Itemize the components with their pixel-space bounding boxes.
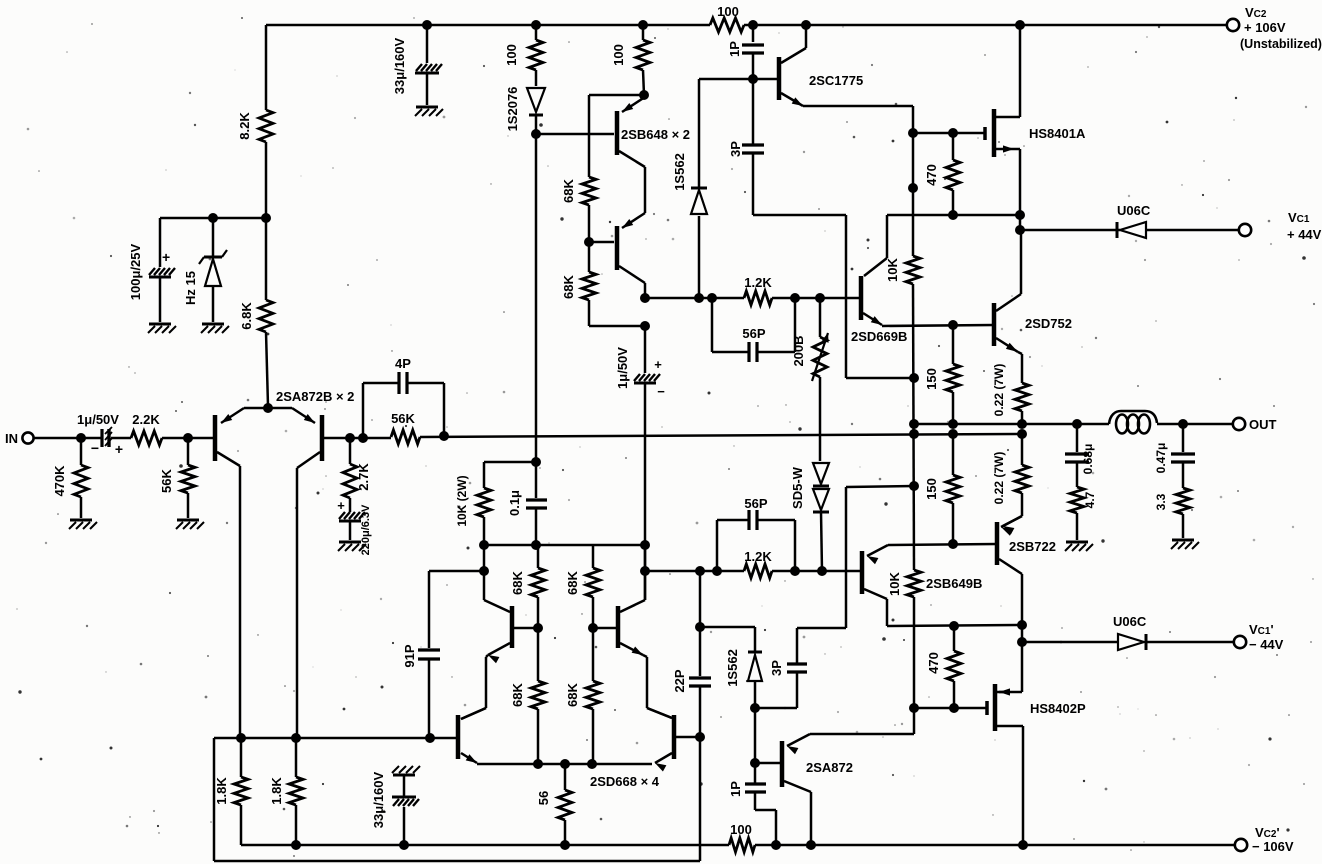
label 100u/25V bbox=[128, 243, 143, 300]
wire Q5 emitter chain bbox=[461, 655, 488, 719]
svg-text:470: 470 bbox=[924, 164, 939, 186]
diode SD5-W pair bbox=[813, 463, 829, 571]
svg-text:+: + bbox=[654, 357, 662, 372]
wire 22P line bottom bbox=[699, 737, 702, 861]
ground 470K bbox=[69, 520, 97, 529]
svg-text:1.2K: 1.2K bbox=[744, 275, 772, 290]
junction Q3 emitter bbox=[639, 90, 649, 100]
svg-text:150: 150 bbox=[924, 478, 939, 500]
label 0.47u bbox=[1154, 443, 1168, 474]
svg-text:8.2K: 8.2K bbox=[237, 112, 252, 140]
svg-text:2SC1775: 2SC1775 bbox=[809, 73, 863, 88]
wire 1S562 to 1P bbox=[754, 708, 757, 783]
transistor Q8 2SD668 bbox=[647, 708, 674, 772]
capacitor 56P upper bbox=[712, 298, 795, 362]
svg-text:10K: 10K bbox=[885, 257, 900, 281]
junction 22P y627 bbox=[695, 622, 705, 632]
wire to U06C lower bbox=[1022, 641, 1118, 644]
wire VAS row bbox=[645, 297, 860, 300]
resistor 10K upper bbox=[906, 256, 920, 284]
label 2SA872B x 2 bbox=[276, 389, 354, 404]
label 22P bbox=[672, 669, 687, 692]
wire main rail bbox=[420, 434, 1022, 437]
junction bottom x776 bbox=[771, 840, 781, 850]
svg-text:3.3: 3.3 bbox=[1154, 493, 1168, 510]
svg-text:1P: 1P bbox=[727, 41, 742, 57]
svg-text:100: 100 bbox=[504, 44, 519, 66]
svg-text:100: 100 bbox=[730, 822, 752, 837]
label plus 1u mid bbox=[654, 357, 662, 372]
wire Q4 collector bbox=[644, 283, 647, 298]
resistor 68K b bbox=[582, 242, 596, 326]
svg-text:68K: 68K bbox=[561, 274, 576, 298]
junction y215 x1020 bbox=[1015, 210, 1025, 220]
wire Q3 coll to Q4 bbox=[644, 167, 647, 213]
wire HS8402P source bbox=[1021, 642, 1024, 692]
svg-text:2SD668 × 4: 2SD668 × 4 bbox=[590, 774, 660, 789]
potentiometer 200B bbox=[812, 298, 829, 461]
svg-text:100μ/25V: 100μ/25V bbox=[128, 243, 143, 300]
svg-text:56P: 56P bbox=[744, 496, 767, 511]
resistor 470K bbox=[74, 438, 88, 518]
resistor 100 bottom bbox=[729, 838, 755, 852]
resistor 10K lower bbox=[907, 570, 921, 597]
ground 220u bbox=[338, 542, 366, 551]
wire 2SD669B collector bbox=[864, 215, 887, 276]
transistor Q1 2SA872B left bbox=[215, 415, 240, 466]
resistor 1.2K lower bbox=[744, 564, 772, 578]
junction y545 x953 bbox=[948, 539, 958, 549]
svg-text:200B: 200B bbox=[791, 335, 806, 366]
svg-text:1S562: 1S562 bbox=[725, 649, 740, 687]
junction 1P top bbox=[748, 20, 758, 30]
junction 1S562 upper bbox=[694, 293, 704, 303]
resistor 100 (top rail) bbox=[710, 18, 744, 32]
label 10K lower bbox=[887, 571, 902, 595]
svg-text:68K: 68K bbox=[561, 178, 576, 202]
wire y571 left bbox=[429, 570, 484, 573]
svg-text:56K: 56K bbox=[391, 411, 415, 426]
junction 470 lower bottom bbox=[949, 703, 959, 713]
svg-text:−: − bbox=[657, 384, 665, 399]
wire 2SC1775 emitter bbox=[803, 106, 913, 133]
svg-text:0.22 (7W): 0.22 (7W) bbox=[992, 364, 1006, 417]
wire to U06C upper bbox=[1020, 229, 1120, 232]
wire 10K chain upper bbox=[912, 133, 915, 256]
label 0.1u bbox=[507, 490, 522, 516]
label 2SD668 x 4 bbox=[590, 774, 660, 789]
capacitor 33u/160V bottom bbox=[392, 775, 419, 845]
label 68K f bbox=[565, 682, 580, 706]
svg-text:+ 44V: + 44V bbox=[1287, 227, 1322, 242]
transistor Q3 2SB648 upper bbox=[617, 97, 645, 167]
wire 2SA872 base bbox=[755, 762, 780, 765]
label minus 1u mid bbox=[657, 384, 665, 399]
wire Q6 emitter row bbox=[477, 763, 652, 766]
label 68K c bbox=[510, 570, 525, 594]
junction 3P wire bbox=[909, 373, 919, 383]
label 1u/50V input bbox=[77, 412, 119, 427]
node junction zener row bbox=[261, 213, 271, 223]
label 1u/50V mid bbox=[615, 347, 630, 389]
label 200B bbox=[791, 335, 806, 366]
svg-text:1μ/50V: 1μ/50V bbox=[77, 412, 119, 427]
transistor Q4 2SB648 lower bbox=[617, 213, 645, 283]
capacitor 0.1u bbox=[526, 462, 547, 545]
junction base 2SC1775 bbox=[748, 74, 758, 84]
wire y545 bbox=[484, 544, 645, 547]
label 470 lower bbox=[926, 652, 941, 674]
svg-text:SD5-W: SD5-W bbox=[790, 466, 805, 509]
wire gate HS8402P bbox=[914, 707, 987, 710]
wire 8.2K to node bbox=[265, 142, 268, 218]
label -106V bbox=[1252, 839, 1294, 854]
svg-text:−: − bbox=[91, 440, 99, 456]
wire 10K2W top bbox=[484, 461, 536, 464]
label 56 bbox=[536, 791, 551, 805]
capacitor 220u/6.3V bbox=[339, 511, 365, 540]
wire 2SB649B collector bbox=[887, 599, 1022, 626]
wire Q3 emitter corner bbox=[589, 95, 644, 177]
wire 2SD752 collector bbox=[1020, 230, 1023, 294]
wire Q5 collector bbox=[483, 545, 486, 600]
label 220u/6.3V bbox=[360, 504, 372, 555]
resistor 150 upper bbox=[946, 325, 960, 424]
junction VAS node bbox=[640, 293, 650, 303]
junction x914 y188 bbox=[908, 183, 918, 193]
label 150 upper bbox=[924, 368, 939, 390]
wire left box bbox=[214, 738, 700, 861]
transistor 2SD669B bbox=[861, 276, 882, 325]
junction 56P right bbox=[790, 293, 800, 303]
junction base Q7 bbox=[588, 623, 598, 633]
wire emitter row y325 bbox=[882, 325, 994, 326]
capacitor 91P bbox=[418, 571, 440, 738]
junction rail upper x914 bbox=[909, 419, 919, 429]
label 3P lower bbox=[769, 660, 784, 676]
transistor 2SD752 bbox=[994, 294, 1021, 352]
svg-text:U06C: U06C bbox=[1117, 203, 1151, 218]
ground 33u top bbox=[415, 107, 443, 116]
label 100 bottom bbox=[730, 822, 752, 837]
label 0.68u bbox=[1081, 444, 1095, 475]
resistor 4.7 bbox=[1070, 487, 1084, 540]
junction 0.1u top bbox=[531, 457, 541, 467]
wire Q7 collector riser bbox=[644, 545, 647, 600]
capacitor 22P bbox=[689, 571, 711, 737]
junction 4P branch bbox=[358, 433, 368, 443]
label plus input cap bbox=[115, 441, 123, 457]
label 3P upper bbox=[728, 141, 743, 157]
label 470 upper bbox=[924, 164, 939, 186]
resistor 470 upper bbox=[946, 133, 960, 215]
svg-text:U06C: U06C bbox=[1113, 614, 1147, 629]
label 100 top bbox=[717, 4, 739, 19]
terminal Vc1 +44V bbox=[1239, 224, 1251, 236]
capacitor 4P bbox=[363, 372, 444, 438]
svg-text:100: 100 bbox=[611, 44, 626, 66]
mosfet HS8402P bbox=[987, 684, 1023, 731]
svg-text:0.22 (7W): 0.22 (7W) bbox=[992, 452, 1006, 505]
transistor 2SC1775 bbox=[779, 48, 806, 106]
zener diode Hz15 bbox=[199, 218, 227, 322]
resistor 1.8K a bbox=[234, 738, 248, 845]
resistor 68K e bbox=[586, 545, 600, 628]
svg-text:22P: 22P bbox=[672, 669, 687, 692]
svg-text:470K: 470K bbox=[52, 465, 67, 497]
label 2SD669B bbox=[851, 329, 907, 344]
wire 68K a to base Q4 bbox=[588, 205, 591, 242]
wire 2SB722 collector bbox=[1021, 574, 1024, 642]
svg-text:0.47μ: 0.47μ bbox=[1154, 443, 1168, 474]
junction 022u top bbox=[1017, 419, 1027, 429]
label Hz 15 bbox=[183, 271, 198, 305]
label 100 right bbox=[611, 44, 626, 66]
junction 200B top bbox=[815, 293, 825, 303]
wire y571 row bbox=[646, 570, 860, 573]
capacitor 1P lower bbox=[745, 784, 776, 845]
resistor 0.22 7W upper bbox=[1015, 352, 1029, 424]
inductor output coil bbox=[1109, 411, 1157, 434]
wire Q7 base bbox=[593, 627, 616, 630]
label 56K feedback bbox=[391, 411, 415, 426]
svg-text:91P: 91P bbox=[402, 644, 417, 667]
label Vc1 bbox=[1288, 210, 1310, 225]
wire 10K chain bottom bbox=[913, 597, 916, 708]
label 3.3 bbox=[1154, 493, 1168, 510]
capacitor 3P upper bbox=[742, 79, 913, 378]
label 2.7K bbox=[356, 463, 371, 491]
resistor 6.8K bbox=[259, 218, 273, 406]
label Vc2p bbox=[1255, 825, 1280, 840]
svg-text:470: 470 bbox=[926, 652, 941, 674]
svg-text:(Unstabilized): (Unstabilized) bbox=[1240, 37, 1322, 51]
svg-text:2SB722: 2SB722 bbox=[1009, 539, 1056, 554]
svg-text:IN: IN bbox=[5, 431, 18, 446]
svg-text:HS8401A: HS8401A bbox=[1029, 126, 1086, 141]
svg-text:4P: 4P bbox=[395, 356, 411, 371]
label 2SD752 bbox=[1025, 316, 1072, 331]
label 470K bbox=[52, 465, 67, 497]
label 1.8K b bbox=[269, 777, 284, 805]
svg-text:2SD669B: 2SD669B bbox=[851, 329, 907, 344]
resistor 56 bbox=[558, 764, 572, 845]
label 8.2K bbox=[237, 112, 252, 140]
transistor Q5 2SD668 bbox=[484, 600, 512, 663]
junction 56P left bbox=[707, 293, 717, 303]
svg-text:2SB649B: 2SB649B bbox=[926, 576, 982, 591]
junction base Q4 bbox=[584, 237, 594, 247]
label IN bbox=[5, 431, 18, 446]
svg-text:100: 100 bbox=[717, 4, 739, 19]
mosfet HS8401A bbox=[985, 109, 1020, 157]
label 68K a bbox=[561, 178, 576, 202]
junction y571 x700 bbox=[695, 566, 705, 576]
svg-text:2SA872: 2SA872 bbox=[806, 760, 853, 775]
label 2SB648 x 2 bbox=[621, 127, 690, 142]
label minus input cap bbox=[91, 440, 99, 456]
terminal Vc1p -44V bbox=[1234, 636, 1246, 648]
svg-text:1.8K: 1.8K bbox=[214, 777, 229, 805]
junction bottom x565 bbox=[560, 840, 570, 850]
junction 470 upper top bbox=[948, 128, 958, 138]
junction 2.7K branch bbox=[345, 433, 355, 443]
label 1.2K upper bbox=[744, 275, 772, 290]
label + 100u bbox=[162, 249, 170, 265]
svg-text:1P: 1P bbox=[728, 781, 743, 797]
label 1P lower bbox=[728, 781, 743, 797]
label Vc2 bbox=[1245, 5, 1267, 20]
svg-text:10K (2W): 10K (2W) bbox=[455, 475, 469, 526]
svg-text:1S2076: 1S2076 bbox=[505, 87, 520, 132]
junction gate lower left bbox=[909, 703, 919, 713]
wire 1S562 to 22P bbox=[700, 626, 755, 629]
wire rail y424 bbox=[914, 423, 1233, 426]
svg-text:OUT: OUT bbox=[1249, 417, 1277, 432]
wire bottom rail bbox=[241, 844, 1235, 847]
junction y738 x296 bbox=[291, 733, 301, 743]
diode 1S2076 bbox=[527, 88, 545, 134]
junction y625 bbox=[1017, 620, 1027, 630]
terminal Vc2p -106V bbox=[1235, 839, 1247, 851]
svg-text:4.7: 4.7 bbox=[1083, 491, 1097, 508]
label Vc1p bbox=[1249, 622, 1274, 637]
resistor 0.22 7W lower bbox=[1001, 434, 1029, 536]
svg-text:+ 106V: + 106V bbox=[1244, 20, 1286, 35]
label 10K upper bbox=[885, 257, 900, 281]
resistor 1.8K b bbox=[289, 738, 303, 845]
label 10K 2W bbox=[455, 475, 469, 526]
capacitor 33u/160V top bbox=[415, 25, 442, 105]
junction 33u top bbox=[422, 20, 432, 30]
label 1.8K a bbox=[214, 777, 229, 805]
junction emitter row x592 bbox=[587, 759, 597, 769]
transistor 2SA872 bbox=[782, 734, 811, 792]
capacitor 1u/50V input bbox=[102, 427, 131, 447]
transistor Q2 2SA872B right bbox=[297, 415, 322, 468]
svg-text:1S562: 1S562 bbox=[672, 153, 687, 191]
resistor 56K feedback bbox=[391, 430, 420, 444]
svg-text:0.1μ: 0.1μ bbox=[507, 490, 522, 516]
junction out cap bbox=[1178, 419, 1188, 429]
transistor 2SB649B bbox=[862, 545, 888, 599]
terminal Vc2 +106V bbox=[1227, 19, 1239, 31]
junction 150u top bbox=[948, 419, 958, 429]
svg-text:+: + bbox=[337, 498, 345, 513]
ground Hz15 bbox=[201, 324, 229, 333]
junction 100 left top bbox=[531, 20, 541, 30]
resistor 150 lower bbox=[946, 434, 960, 544]
label 2SC1775 bbox=[809, 73, 863, 88]
label 2SB649B bbox=[926, 576, 982, 591]
junction input bbox=[76, 433, 86, 443]
wire 2SA872 emitter bbox=[810, 708, 914, 734]
junction 2SC1775 collector bbox=[801, 20, 811, 30]
wire 2.2K to base bbox=[162, 437, 213, 440]
resistor 68K d bbox=[531, 628, 545, 765]
resistor 2.2K bbox=[131, 431, 162, 445]
wire Q8 base bbox=[676, 736, 700, 739]
wire HS8402P drain bbox=[1022, 726, 1025, 845]
wire HS8401A source bbox=[1019, 149, 1022, 230]
svg-text:56P: 56P bbox=[742, 326, 765, 341]
wire 1S2076 vertical bbox=[535, 134, 538, 462]
svg-text:33μ/160V: 33μ/160V bbox=[371, 771, 386, 828]
capacitor 1u/50V mid bbox=[634, 326, 660, 600]
svg-text:Hz 15: Hz 15 bbox=[183, 271, 198, 305]
junction y642 bbox=[1017, 637, 1027, 647]
emitter lead Q1 with arrow bbox=[221, 408, 244, 423]
svg-text:HS8402P: HS8402P bbox=[1030, 701, 1086, 716]
junction zobel bbox=[1072, 419, 1082, 429]
label 100 left bbox=[504, 44, 519, 66]
resistor 68K f bbox=[586, 628, 600, 764]
label 1S562 lower bbox=[725, 649, 740, 687]
wire y738 base row bbox=[214, 737, 456, 740]
transistor Q6 2SD668 bbox=[458, 708, 486, 763]
junction 56P lower left bbox=[712, 566, 722, 576]
wire y215 bbox=[887, 214, 1020, 217]
label 1P upper bbox=[727, 41, 742, 57]
label 0.22 7W upper bbox=[992, 364, 1006, 417]
svg-text:10K: 10K bbox=[887, 571, 902, 595]
junction Hz15 bbox=[208, 213, 218, 223]
svg-text:2SB648 × 2: 2SB648 × 2 bbox=[621, 127, 690, 142]
junction feedback node bbox=[439, 431, 449, 441]
label U06C lower bbox=[1113, 614, 1147, 629]
junction y571 x646 bbox=[640, 566, 650, 576]
svg-text:68K: 68K bbox=[510, 682, 525, 706]
junction 22P base node bbox=[695, 732, 705, 742]
ground zobel 2 bbox=[1171, 540, 1199, 549]
wire base Q3 bbox=[536, 133, 614, 136]
ground 100u cap bbox=[148, 324, 176, 333]
svg-text:1.2K: 1.2K bbox=[744, 549, 772, 564]
junction y571 x484 bbox=[479, 566, 489, 576]
node common emitter bbox=[263, 403, 273, 413]
label 68K d bbox=[510, 682, 525, 706]
wire 3P riser bbox=[797, 487, 846, 628]
capacitor 0.68u bbox=[1065, 424, 1089, 487]
junction 1P line top bbox=[750, 758, 760, 768]
diode U06C lower bbox=[1118, 634, 1234, 650]
svg-text:68K: 68K bbox=[510, 570, 525, 594]
wire 2SA872 collector bbox=[810, 792, 813, 845]
junction bottom x296 bbox=[291, 840, 301, 850]
resistor 100 left bbox=[529, 25, 543, 86]
label 6.8K bbox=[239, 302, 254, 330]
junction y486 bbox=[909, 481, 919, 491]
junction rail lower 953 bbox=[948, 429, 958, 439]
resistor 68K a bbox=[582, 177, 596, 205]
terminal OUT bbox=[1233, 418, 1245, 430]
junction emitter row x538 bbox=[533, 759, 543, 769]
capacitor 100u/25V bbox=[149, 218, 175, 322]
svg-text:2SD752: 2SD752 bbox=[1025, 316, 1072, 331]
diode 1S562 lower bbox=[748, 627, 762, 708]
svg-text:150: 150 bbox=[924, 368, 939, 390]
junction gate wire left bbox=[908, 128, 918, 138]
label 33u/160V bottom bbox=[371, 771, 386, 828]
label 4P bbox=[395, 356, 411, 371]
label 150 lower bbox=[924, 478, 939, 500]
resistor 8.2K bbox=[259, 110, 273, 142]
junction y738 x241 bbox=[236, 733, 246, 743]
label 1.2K lower bbox=[744, 549, 772, 564]
junction drain top bbox=[1015, 20, 1025, 30]
diode U06C upper bbox=[1117, 222, 1239, 238]
wire zener row bbox=[160, 217, 266, 220]
